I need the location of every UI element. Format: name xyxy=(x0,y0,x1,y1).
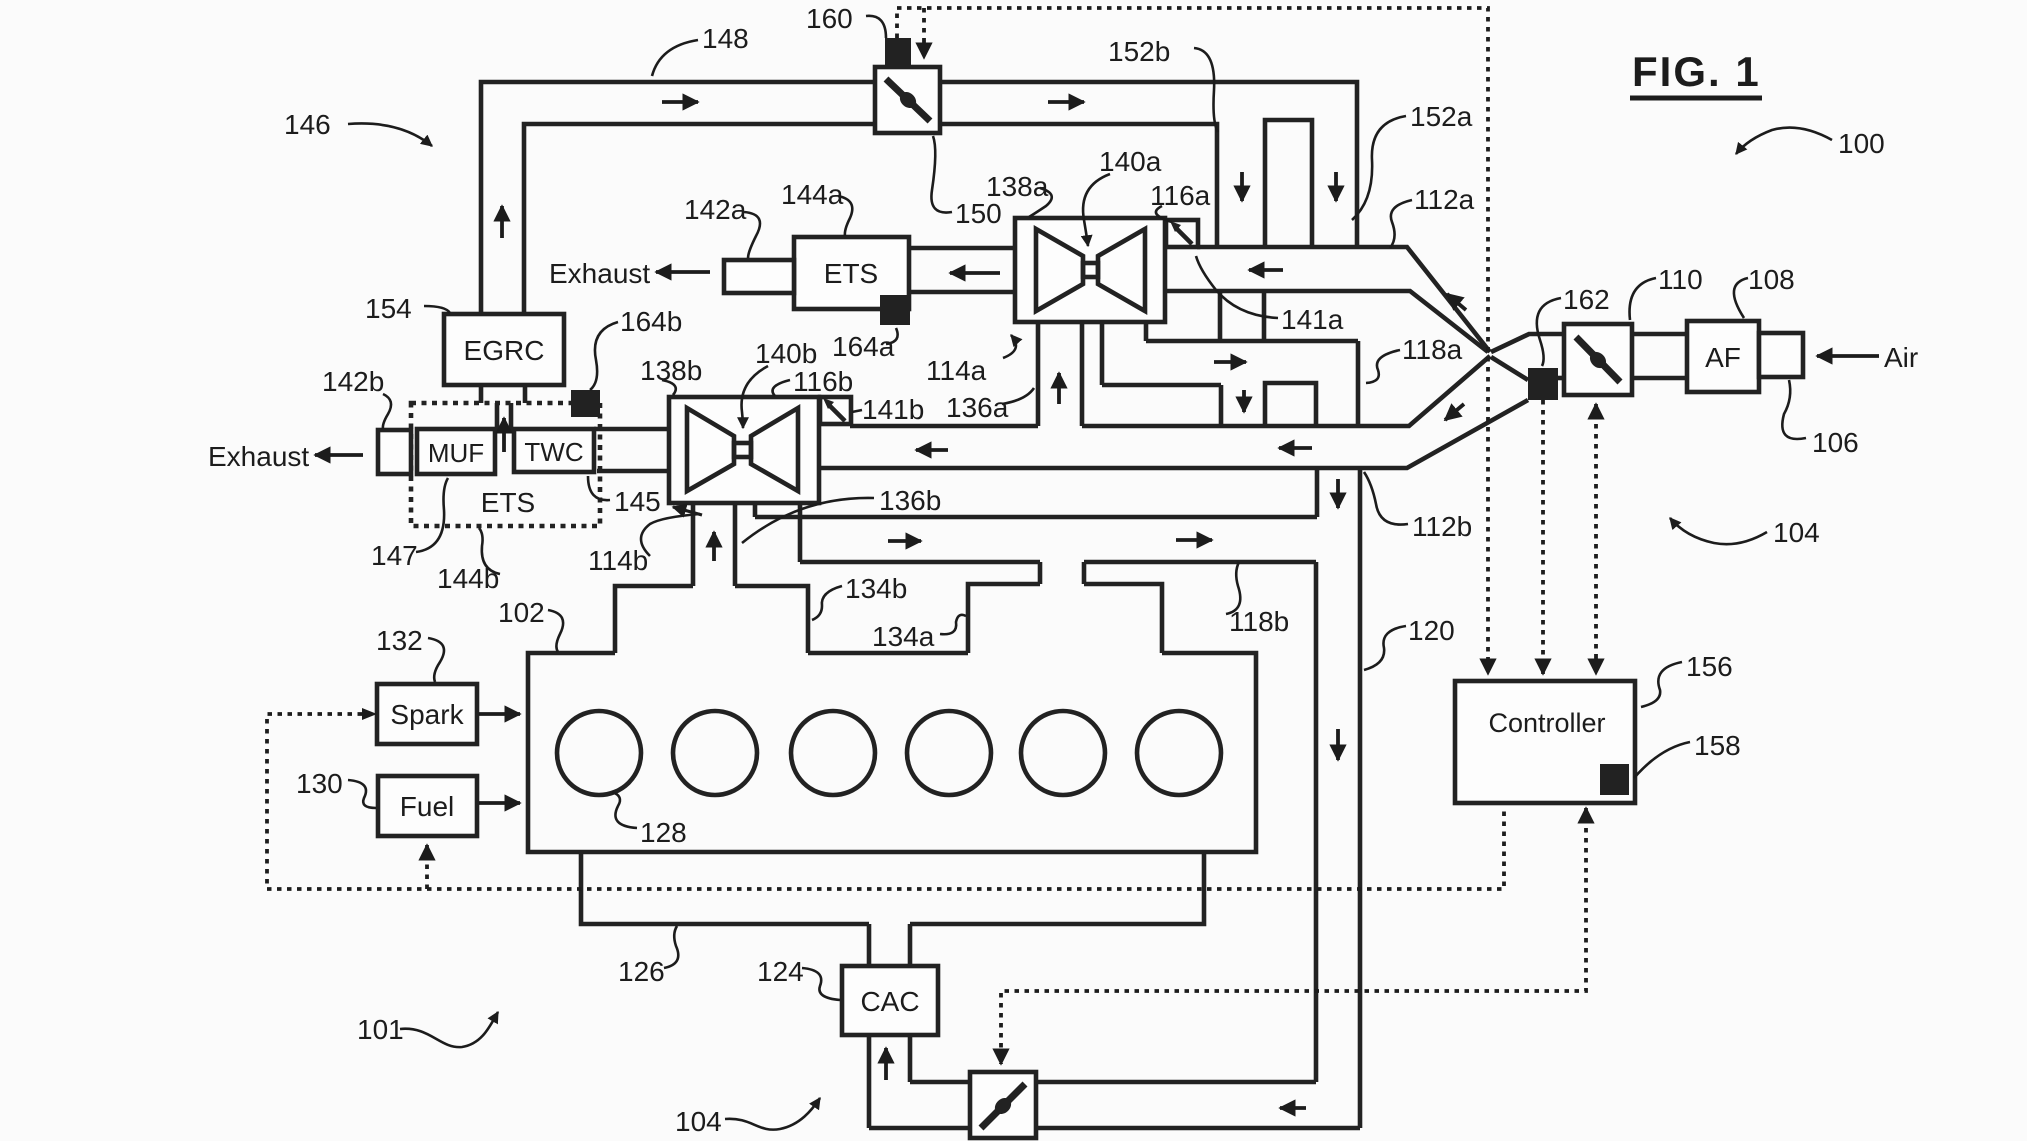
svg-text:148: 148 xyxy=(702,23,749,54)
svg-text:134b: 134b xyxy=(845,573,907,604)
leader 156 xyxy=(1641,662,1682,707)
wire duct 114a left wall xyxy=(1036,322,1041,426)
svg-text:114a: 114a xyxy=(926,355,987,386)
svg-text:CAC: CAC xyxy=(860,986,919,1017)
shaft 140b xyxy=(734,443,751,457)
svg-text:164b: 164b xyxy=(620,306,682,337)
inlet pipe 106 xyxy=(1759,333,1803,377)
leader 118b xyxy=(1226,562,1240,614)
leader 164b xyxy=(590,322,618,390)
wire duct 114b left wall xyxy=(691,503,696,586)
leader 132 xyxy=(428,638,444,682)
MUF box xyxy=(417,429,495,474)
svg-text:160: 160 xyxy=(806,3,853,34)
leader 138b xyxy=(662,380,676,395)
flow arrow 152a down xyxy=(1334,172,1338,201)
leader 106 xyxy=(1782,380,1806,439)
cylinder c5 xyxy=(1021,711,1105,795)
wire duct 118a top line xyxy=(1146,339,1358,344)
svg-text:144a: 144a xyxy=(781,179,844,210)
leader 114b arrow xyxy=(641,514,700,556)
leader 142b xyxy=(383,394,391,429)
duct 152a vertical rectangle xyxy=(1265,120,1312,246)
wire junction to valve 110 upper xyxy=(1491,334,1564,352)
exhaust manifold 126 stub xyxy=(581,852,1204,924)
flow arrow ETS inlet left xyxy=(950,271,1000,275)
wire duct 118a left wall xyxy=(1100,322,1105,385)
wire duct 112b upper line left xyxy=(850,424,1038,429)
leader 164a xyxy=(886,328,898,344)
wire duct 134a feed left xyxy=(1038,562,1043,584)
svg-text:102: 102 xyxy=(498,597,545,628)
svg-text:142a: 142a xyxy=(684,194,747,225)
flow arrow 114a up xyxy=(1057,373,1061,404)
wire pipe ETS to turbine 138a bottom xyxy=(909,290,1015,295)
wire duct 136b left riser b xyxy=(798,503,803,562)
leader 147 xyxy=(416,478,448,552)
cylinder c3 xyxy=(791,711,875,795)
svg-text:136b: 136b xyxy=(879,485,941,516)
sensor 164a xyxy=(880,295,910,325)
svg-text:118a: 118a xyxy=(1402,334,1463,365)
flow arrow exhaust b left xyxy=(315,453,363,457)
leader 141a xyxy=(1196,256,1278,318)
leader 162 xyxy=(1537,298,1561,366)
leader 158 xyxy=(1634,742,1690,778)
svg-text:EGRC: EGRC xyxy=(464,335,545,366)
svg-text:104: 104 xyxy=(1773,517,1820,548)
flow arrow 118a right xyxy=(1214,360,1246,364)
svg-text:152b: 152b xyxy=(1108,36,1170,67)
valve 104 plate xyxy=(981,1084,1025,1128)
svg-text:146: 146 xyxy=(284,109,331,140)
svg-text:144b: 144b xyxy=(437,563,499,594)
wire duct 136b top line xyxy=(755,515,1317,520)
svg-text:TWC: TWC xyxy=(524,437,583,467)
ETS box 144a xyxy=(794,237,909,309)
svg-text:Controller: Controller xyxy=(1488,708,1605,738)
wire duct 134a feed right xyxy=(1082,562,1087,584)
sensor 164b xyxy=(571,390,600,417)
wire duct 112a bottom run xyxy=(1167,291,1488,352)
svg-text:118b: 118b xyxy=(1229,606,1289,637)
svg-text:164a: 164a xyxy=(832,331,895,362)
flow arrow 112b diagonal xyxy=(1445,404,1464,420)
title underline xyxy=(1630,96,1762,101)
compressor wheel 140a xyxy=(1098,229,1145,311)
leader 150 xyxy=(931,136,952,213)
wire duct 120 upper left wall xyxy=(1315,468,1320,517)
wire CAC feed right xyxy=(908,924,913,966)
leader 140b arrow xyxy=(742,366,768,428)
flow arrow EGR up xyxy=(500,206,504,238)
leader 141b xyxy=(852,410,862,412)
svg-text:134a: 134a xyxy=(872,621,935,652)
wire duct 120 left wall xyxy=(1314,562,1319,1082)
svg-text:Air: Air xyxy=(1884,342,1918,373)
AF box 108 xyxy=(1687,321,1759,392)
wire pipe ETS to turbine 138a top xyxy=(909,246,1015,251)
wastegate port 141b xyxy=(820,397,851,424)
EGRC box 154 xyxy=(444,314,564,385)
leader 144a xyxy=(838,196,852,236)
svg-text:106: 106 xyxy=(1812,427,1859,458)
svg-text:136a: 136a xyxy=(946,392,1009,423)
valve 104 body xyxy=(970,1072,1036,1138)
TWC box xyxy=(514,429,594,472)
leader 102 xyxy=(548,610,563,652)
svg-text:152a: 152a xyxy=(1410,101,1473,132)
arrowhead control into Spark xyxy=(362,708,377,720)
flow arrow EGR right 1 xyxy=(662,100,698,104)
valve 150 body xyxy=(875,67,940,133)
wire pipe TWC to turbine 138b bottom xyxy=(597,469,669,474)
flow arrow EGR right 2 xyxy=(1048,100,1084,104)
leader 101 arrow xyxy=(400,1012,498,1047)
svg-text:156: 156 xyxy=(1686,651,1733,682)
leader 138a xyxy=(1029,188,1052,217)
leader 152b xyxy=(1194,48,1218,132)
control line into valve 150 xyxy=(922,8,926,58)
wastegate arrow 116a xyxy=(1177,229,1192,244)
wire duct 112b lower line xyxy=(819,400,1528,468)
control line to Fuel xyxy=(425,845,429,889)
wire 152b crossing duct right wall xyxy=(1262,292,1267,341)
exhaust outlet pipe 142b xyxy=(378,430,411,474)
flow arrow 112b left 1 xyxy=(1279,446,1312,450)
wire EGR pipe right of valve 150 inner xyxy=(940,124,1217,246)
svg-text:112b: 112b xyxy=(1412,511,1472,542)
leader 136b xyxy=(742,498,874,543)
engine block 102 xyxy=(528,653,1256,852)
wastegate arrow 141b xyxy=(830,406,845,421)
svg-text:114b: 114b xyxy=(588,545,648,576)
leader 112a xyxy=(1390,200,1412,248)
svg-text:154: 154 xyxy=(365,293,412,324)
wire pipe valve to duct 120 top xyxy=(1036,1080,1316,1085)
svg-text:126: 126 xyxy=(618,956,665,987)
leader 145 xyxy=(588,476,610,500)
svg-text:158: 158 xyxy=(1694,730,1741,761)
flow arrow exhaust a left xyxy=(656,270,710,274)
flow arrow 114b up xyxy=(712,532,716,561)
flow arrow Spark to engine xyxy=(479,712,520,716)
svg-text:147: 147 xyxy=(371,540,418,571)
svg-text:120: 120 xyxy=(1408,615,1455,646)
leader 154 xyxy=(424,306,450,313)
Fuel box 130 xyxy=(378,776,477,836)
leader 116b xyxy=(773,380,790,396)
svg-text:141a: 141a xyxy=(1281,304,1344,335)
wire duct 114a right wall xyxy=(1080,322,1085,426)
leader 136a xyxy=(1002,388,1034,404)
flow arrow 152b down xyxy=(1240,172,1244,201)
wire duct 136b left riser a xyxy=(753,503,758,517)
svg-text:AF: AF xyxy=(1705,342,1741,373)
wastegate port 116a xyxy=(1166,220,1198,247)
memory 158 xyxy=(1600,764,1629,795)
leader 104 right arrow xyxy=(1670,518,1767,544)
leader 130 xyxy=(348,780,376,808)
wire duct 118a left stub xyxy=(1144,322,1149,341)
svg-text:141b: 141b xyxy=(862,394,924,425)
leader 104 bottom arrow xyxy=(725,1098,820,1130)
leader 148 xyxy=(652,40,698,76)
svg-text:124: 124 xyxy=(757,956,804,987)
flow arrow Air left xyxy=(1817,354,1879,358)
turbine wheel 138b xyxy=(687,408,734,491)
svg-text:132: 132 xyxy=(376,625,423,656)
leader 126 xyxy=(664,926,678,968)
wire duct 118a elbow wall xyxy=(1356,341,1361,426)
wire duct 120 right wall xyxy=(1358,468,1363,1128)
leader 114a arrow xyxy=(1003,335,1016,358)
svg-text:101: 101 xyxy=(357,1014,404,1045)
flow arrow 136b right 2 xyxy=(1176,538,1212,542)
shaft 140a xyxy=(1083,263,1098,277)
svg-text:104: 104 xyxy=(675,1106,722,1137)
wire MUF TWC riser xyxy=(497,403,511,432)
flow arrow 112a diagonal xyxy=(1447,294,1466,310)
wire valve 110 to AF top xyxy=(1632,332,1687,337)
leader 144b xyxy=(479,528,500,574)
leader 124 xyxy=(802,968,840,1000)
turbine wheel 138a xyxy=(1036,229,1083,311)
actuator 160 xyxy=(885,38,911,67)
wire valve 110 to AF bottom xyxy=(1632,376,1687,381)
flow arrow 120 down 2 xyxy=(1336,729,1340,760)
wire junction to sensor 162 lower xyxy=(1491,357,1528,380)
leader 134b xyxy=(812,586,842,620)
wire duct 112a top run xyxy=(1197,247,1490,352)
svg-text:ETS: ETS xyxy=(481,487,535,518)
sensor 162 xyxy=(1528,368,1558,400)
wire pipe TWC to turbine 138b top xyxy=(594,427,669,432)
ETS dashed box 144b xyxy=(411,403,600,526)
svg-text:112a: 112a xyxy=(1414,184,1475,215)
svg-text:FIG. 1: FIG. 1 xyxy=(1632,48,1761,95)
intake runner 134b xyxy=(615,586,808,653)
valve 104 pivot xyxy=(992,1095,1015,1118)
leader 146 arrow xyxy=(348,123,432,146)
svg-text:110: 110 xyxy=(1658,264,1703,295)
wire duct 112b upper line right xyxy=(1082,356,1490,426)
leader 160 xyxy=(866,16,886,38)
control line valve 110 to controller xyxy=(1594,404,1598,674)
cylinder 128 c1 xyxy=(557,711,641,795)
turbocharger 138b housing xyxy=(669,397,819,503)
svg-text:142b: 142b xyxy=(322,366,384,397)
wire crossing notch left xyxy=(1219,385,1224,426)
svg-text:138b: 138b xyxy=(640,355,702,386)
wire duct 136b bottom line left xyxy=(800,560,1040,565)
leader 120 xyxy=(1364,626,1406,670)
wire duct 118a bottom line xyxy=(1102,383,1221,388)
cylinder c6 xyxy=(1137,711,1221,795)
leader 108 xyxy=(1734,278,1748,318)
leader 100 arrow xyxy=(1736,128,1832,154)
svg-text:Fuel: Fuel xyxy=(400,791,454,822)
control line to valve 104 xyxy=(1001,808,1586,1064)
svg-text:Spark: Spark xyxy=(390,699,464,730)
svg-text:162: 162 xyxy=(1563,284,1610,315)
CAC box 124 xyxy=(842,966,938,1035)
exhaust outlet pipe 142a xyxy=(724,260,794,293)
flow arrow MUF TWC up xyxy=(502,418,506,452)
compressor wheel 140b xyxy=(751,408,798,491)
flow arrow 112a left xyxy=(1249,268,1283,272)
svg-text:100: 100 xyxy=(1838,128,1885,159)
valve 150 pivot xyxy=(897,89,920,112)
svg-text:145: 145 xyxy=(614,486,661,517)
wire pipe CAC to valve bottom xyxy=(869,1126,970,1131)
control line sensor 162 to controller xyxy=(1541,400,1545,674)
flow arrow Fuel to engine xyxy=(479,801,520,805)
wire CAC outlet right xyxy=(908,1035,913,1082)
leader 140a arrow xyxy=(1083,174,1110,246)
wire sensor 162 to valve 110 xyxy=(1558,376,1564,381)
turbocharger 138a housing xyxy=(1015,218,1165,322)
flow arrow to valve 104 left xyxy=(1280,1106,1306,1110)
valve 150 plate xyxy=(886,79,930,121)
wire pipe valve to duct 120 bottom xyxy=(1036,1126,1360,1131)
wire pipe CAC to valve top xyxy=(910,1080,970,1085)
svg-text:116b: 116b xyxy=(793,366,853,397)
Spark box 132 xyxy=(377,684,477,744)
flow arrow CAC up xyxy=(884,1048,888,1080)
valve 110 body xyxy=(1564,324,1632,395)
intake runner 134a xyxy=(968,584,1162,653)
svg-text:108: 108 xyxy=(1748,264,1795,295)
wire crossing notch cap xyxy=(1265,383,1316,426)
valve 110 plate xyxy=(1576,337,1620,382)
cylinder c2 xyxy=(673,711,757,795)
leader 142a xyxy=(744,212,760,258)
wire duct 136b bottom line right xyxy=(1084,560,1316,565)
cylinder c4 xyxy=(907,711,991,795)
flow arrow 120 down 1 xyxy=(1336,479,1340,508)
svg-text:MUF: MUF xyxy=(428,438,484,468)
svg-text:140b: 140b xyxy=(755,338,817,369)
leader 134a xyxy=(940,615,966,634)
svg-text:128: 128 xyxy=(640,817,687,848)
Controller box 156 xyxy=(1455,681,1635,803)
wire EGR pipe right of valve 150 outer xyxy=(940,82,1357,247)
wire EGRC risers to ETS box xyxy=(481,385,525,403)
wire CAC outlet left xyxy=(867,1035,872,1128)
control line actuator 160 xyxy=(897,8,1488,674)
svg-text:ETS: ETS xyxy=(824,258,878,289)
valve 110 pivot xyxy=(1587,349,1610,372)
svg-text:116a: 116a xyxy=(1150,180,1211,211)
wire 152b crossing duct left wall xyxy=(1218,292,1223,341)
svg-text:Exhaust: Exhaust xyxy=(549,258,650,289)
wire EGR pipe 148 outer top xyxy=(481,82,875,314)
leader 128 xyxy=(612,792,637,828)
flow arrow 112b left 2 xyxy=(916,448,948,452)
svg-text:Exhaust: Exhaust xyxy=(208,441,309,472)
wire EGR pipe 148 inner top xyxy=(524,124,875,314)
svg-text:140a: 140a xyxy=(1099,146,1162,177)
leader 118a xyxy=(1366,350,1400,383)
svg-text:150: 150 xyxy=(955,198,1002,229)
control line to Spark xyxy=(267,714,1504,889)
leader 116a xyxy=(1156,206,1172,222)
leader 110 xyxy=(1630,278,1656,320)
wire duct 114b right wall xyxy=(733,503,738,586)
svg-text:130: 130 xyxy=(296,768,343,799)
leader 152a xyxy=(1352,116,1406,220)
flow arrow 136b right 1 xyxy=(888,539,921,543)
flow arrow crossing down xyxy=(1242,390,1246,412)
wire CAC feed left xyxy=(867,924,872,966)
leader 112b xyxy=(1364,472,1408,525)
